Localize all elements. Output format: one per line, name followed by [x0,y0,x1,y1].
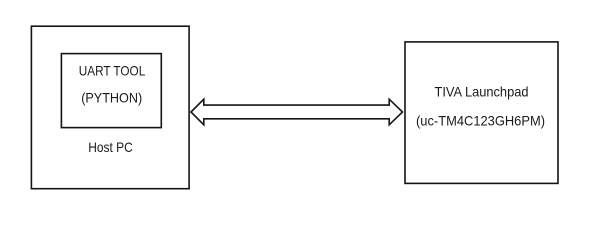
svg-text:Host PC: Host PC [88,140,133,155]
svg-text:TIVA Launchpad: TIVA Launchpad [435,85,529,100]
block TIVA Launchpad [405,42,558,184]
svg-text:(PYTHON): (PYTHON) [81,90,142,105]
svg-text:(uc-TM4C123GH6PM): (uc-TM4C123GH6PM) [416,114,545,129]
block UART TOOL (inner box) [61,54,161,128]
svg-text:UART TOOL: UART TOOL [79,64,146,79]
block Host PC (outer box) [31,26,189,189]
wire double-headed open arrow between Host PC and TIVA Launchpad [191,99,403,125]
